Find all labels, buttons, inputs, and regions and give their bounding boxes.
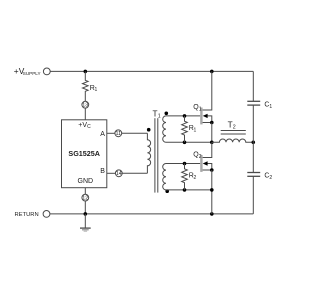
wire T1 sec1 top to Q1 gate (166, 115, 200, 117)
transistor Q2 (200, 155, 212, 172)
node Q2 source (210, 168, 214, 172)
node T1 secondary1 phase dot (165, 112, 169, 116)
node R1 gate bottom (183, 141, 187, 145)
label R2 (189, 173, 197, 181)
svg-text:RETURN: RETURN (15, 212, 39, 218)
wire right rail top (252, 71, 254, 101)
pin 11 (115, 130, 122, 137)
label +VC (78, 122, 91, 130)
label A (100, 131, 105, 138)
svg-text:12: 12 (82, 196, 88, 202)
pin 14 (115, 170, 122, 177)
node T1 secondary2 phase dot (165, 189, 169, 193)
pin 12 (82, 194, 89, 201)
svg-text:2: 2 (194, 175, 197, 181)
wire pin 12 to bottom rail (84, 201, 86, 214)
terminal RETURN (43, 211, 50, 218)
transformer T2 primary winding (212, 139, 254, 142)
op-amp U1 SG1525A box (62, 120, 107, 188)
label C1 (264, 101, 272, 109)
svg-text:1: 1 (95, 87, 98, 93)
node Q2 source / sec2 bottom (210, 188, 214, 192)
wire Q1 source to mid node (211, 123, 213, 143)
label R1 (90, 85, 98, 93)
node R2 top (183, 162, 187, 166)
wire pin 11 to T1 primary (122, 132, 148, 134)
resistor R1 (supply) (83, 71, 89, 101)
resistor R2 (182, 164, 188, 190)
svg-text:C: C (87, 124, 91, 130)
label B (100, 168, 105, 175)
node T1 primary phase dot (147, 128, 151, 132)
label +VSUPPLY (14, 66, 41, 76)
label R1 gate (189, 125, 197, 133)
label T2 (228, 121, 236, 131)
svg-text:SG1525A: SG1525A (68, 149, 100, 158)
node T2 right (252, 141, 256, 145)
node mid (210, 141, 214, 145)
label GND (78, 178, 94, 185)
svg-text:1: 1 (269, 104, 272, 110)
transformer T1 secondary 2 (163, 163, 166, 189)
svg-text:SUPPLY: SUPPLY (23, 71, 41, 76)
svg-text:2: 2 (269, 175, 272, 181)
wire T1 sec1 bottom to mid node (166, 141, 212, 143)
svg-text:1: 1 (194, 127, 197, 133)
transformer T2 core (221, 131, 246, 135)
svg-text:1: 1 (158, 113, 161, 119)
node R1 gate top (183, 114, 187, 118)
svg-text:+V: +V (78, 122, 87, 129)
svg-text:13: 13 (82, 103, 88, 109)
transformer T1 core (155, 118, 158, 192)
label T1 (153, 109, 161, 119)
label SG1525A (68, 149, 100, 158)
capacitor C2 (247, 173, 260, 177)
node top rail / R1 (84, 70, 88, 74)
wire box B to pin 14 (107, 172, 116, 174)
svg-text:B: B (100, 168, 105, 175)
node bottom rail / ground (84, 212, 88, 216)
label Q2 (193, 151, 201, 159)
svg-text:2: 2 (233, 125, 236, 131)
svg-text:2: 2 (199, 154, 202, 160)
svg-text:A: A (100, 131, 105, 138)
node top rail / Q1 drain (210, 70, 214, 74)
wire right rail bottom (252, 176, 254, 214)
transformer T1 primary winding (147, 133, 150, 173)
svg-text:14: 14 (116, 171, 122, 177)
wire right rail C1 to T2 (252, 105, 254, 142)
terminal +VSUPPLY (43, 68, 50, 75)
wire T1 sec2 bottom to Q2 source (166, 189, 212, 191)
wire T1 sec2 top to Q2 gate (166, 163, 200, 165)
node bottom rail / Q2 source (210, 212, 214, 216)
ground (80, 214, 91, 231)
wire top rail (50, 70, 253, 72)
wire pin13 to box (84, 108, 86, 120)
node Q1 source (210, 121, 214, 125)
svg-text:1: 1 (199, 106, 202, 112)
wire pin 14 to T1 primary (122, 172, 147, 174)
label Q1 (193, 104, 201, 112)
transistor Q1 (200, 71, 212, 124)
wire mid node to Q2 drain (203, 142, 212, 157)
wire right rail T2 to C2 (252, 142, 254, 172)
wire box A to pin 11 (107, 132, 115, 134)
label RETURN (15, 212, 39, 218)
label C2 (264, 173, 272, 181)
resistor R1 (gate) (182, 116, 188, 142)
pin 13 (82, 101, 89, 108)
wire bottom rail (50, 213, 253, 215)
svg-text:GND: GND (78, 178, 94, 185)
capacitor C1 (247, 101, 260, 105)
wire Q2 source to bottom rail (211, 170, 213, 214)
transformer T1 secondary 1 (163, 116, 166, 142)
svg-text:11: 11 (115, 131, 121, 137)
node R2 bottom (183, 188, 187, 192)
wire box GND to pin 12 (84, 188, 86, 195)
